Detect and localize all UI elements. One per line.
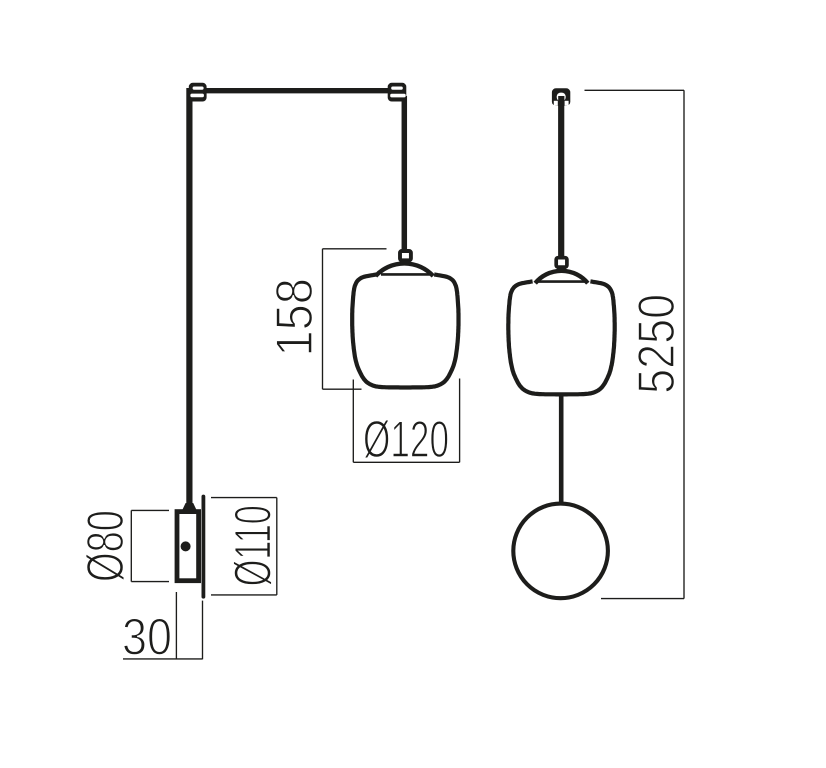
right arm bracket: [388, 83, 407, 102]
suspension cord (right drawing): [558, 105, 564, 257]
dim D120 lines: [352, 380, 354, 463]
counterweight ball: [513, 504, 608, 599]
svg-text:Ø80: Ø80: [77, 510, 135, 582]
left vertical pole: [186, 88, 192, 504]
dim 30 lines: [175, 592, 177, 659]
horizontal arm: [193, 88, 400, 93]
dome cap (right drawing): [535, 271, 588, 283]
glass shade body (left drawing): [352, 275, 458, 388]
dim 5250 lines: [585, 89, 685, 91]
lower cord (right drawing): [559, 395, 564, 503]
wall line: [201, 497, 205, 597]
svg-text:Ø120: Ø120: [363, 411, 449, 469]
top ceiling connector: [552, 88, 570, 105]
lamp fitting (left drawing): [400, 251, 411, 265]
svg-text:158: 158: [266, 278, 324, 357]
svg-text:5250: 5250: [628, 294, 686, 394]
dome cap (left drawing): [376, 263, 434, 276]
svg-text:Ø110: Ø110: [225, 505, 283, 586]
svg-text:30: 30: [122, 609, 172, 667]
neck line (right drawing): [537, 280, 588, 283]
wall plate (side view): [177, 512, 199, 581]
screw dot: [181, 541, 191, 551]
lamp fitting (right drawing): [556, 258, 567, 272]
wall plate flare: [182, 503, 197, 511]
dim D80 lines: [130, 510, 132, 581]
left arm bracket: [189, 83, 207, 102]
neck line (left drawing): [381, 273, 431, 276]
dim 158 lines: [322, 249, 324, 389]
right suspension cord (left drawing): [402, 96, 408, 250]
glass shade body (right drawing): [508, 281, 614, 394]
dim D110 lines: [211, 497, 277, 499]
